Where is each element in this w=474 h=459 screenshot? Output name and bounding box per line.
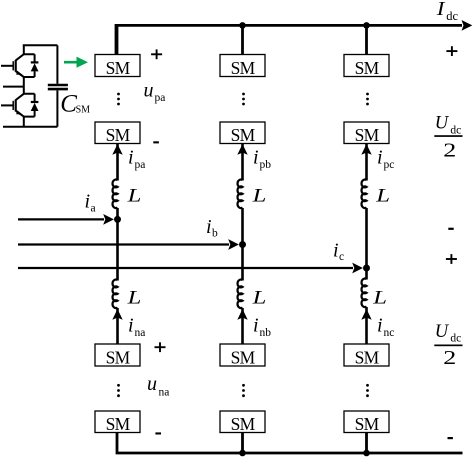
node bottom bus leg c dot: [363, 450, 370, 457]
wire leg c middle: [365, 208, 368, 280]
node phase a junction dot: [114, 216, 121, 223]
inductor L upper b: [238, 180, 243, 208]
SM box c4: [344, 411, 389, 433]
wire phase a line: [18, 218, 104, 220]
arrowhead ipb up: [237, 144, 247, 155]
SM box a4: [95, 411, 140, 433]
green arrow: [64, 57, 88, 68]
svg-text:SM: SM: [106, 348, 131, 368]
svg-text:i: i: [128, 147, 134, 169]
wire leg c lower arm: [365, 307, 368, 345]
svg-text:2: 2: [443, 139, 456, 161]
wire leg b top drop: [241, 25, 244, 56]
wire leg a top drop: [116, 25, 119, 56]
dots leg c top: [366, 93, 369, 96]
node top bus leg c dot: [363, 22, 370, 29]
wire capacitor branch lower: [56, 90, 58, 126]
gate bar Q1: [12, 61, 14, 70]
svg-text:L: L: [251, 286, 266, 308]
inductor L lower c: [362, 279, 367, 307]
svg-text:dc: dc: [450, 333, 461, 345]
wire leg c top drop: [365, 25, 368, 56]
minus sign bottom right: [448, 437, 453, 439]
gate bar Q2: [12, 101, 14, 110]
arrowhead ipa up: [112, 144, 122, 155]
emitter arrow Q1: [16, 71, 22, 75]
svg-text:SM: SM: [106, 414, 131, 434]
diode D1 cathode bar: [31, 61, 39, 63]
svg-text:L: L: [375, 184, 390, 206]
plus sign top right: [446, 46, 457, 56]
svg-text:SM: SM: [231, 414, 256, 434]
svg-text:SM: SM: [231, 58, 256, 78]
svg-text:L: L: [126, 286, 141, 308]
svg-text:SM: SM: [231, 348, 256, 368]
svg-text:SM: SM: [231, 125, 256, 145]
svg-text:SM: SM: [106, 58, 131, 78]
inductor L upper a: [113, 180, 118, 208]
wire SM bottom rail: [3, 126, 57, 128]
svg-text:u: u: [147, 373, 157, 395]
svg-text:i: i: [253, 147, 259, 169]
capacitor CSM plate 1: [48, 84, 68, 87]
plus sign upa: [151, 49, 162, 59]
wire bottom DC bus: [117, 432, 463, 453]
arrowhead ina up: [112, 309, 122, 320]
arrowhead ic right: [352, 263, 363, 274]
svg-text:na: na: [135, 327, 146, 339]
emitter lead Q1: [16, 71, 24, 77]
arrowhead Idc on top bus: [462, 20, 473, 31]
collector lead Q1: [16, 54, 24, 60]
SM box a3: [95, 344, 140, 366]
emitter lead Q2: [16, 111, 24, 117]
wire diode D2 branch: [34, 94, 36, 117]
wire Q1 collector to diode: [24, 45, 35, 54]
svg-text:L: L: [372, 286, 387, 308]
wire leg c upper arm: [365, 144, 368, 181]
svg-text:pa: pa: [135, 159, 146, 171]
arrowhead inb up: [237, 309, 247, 320]
node phase b junction dot: [239, 241, 246, 248]
wire phase b line: [18, 243, 229, 245]
wire leg a upper arm: [116, 144, 119, 181]
svg-text:i: i: [128, 315, 134, 337]
svg-text:SM: SM: [355, 414, 380, 434]
inductor L lower b: [238, 280, 243, 309]
svg-text:SM: SM: [106, 125, 131, 145]
svg-text:SM: SM: [76, 104, 91, 115]
arrowhead inc up: [361, 309, 371, 320]
body bar Q1: [15, 60, 17, 72]
svg-text:pc: pc: [384, 159, 395, 171]
svg-text:na: na: [159, 387, 170, 399]
wire Q2 collector to diode: [24, 87, 35, 94]
wire top DC bus: [116, 25, 462, 56]
inductor L lower a: [113, 280, 118, 309]
body bar Q2: [15, 100, 17, 112]
svg-text:SM: SM: [355, 58, 380, 78]
wire leg b upper arm: [241, 144, 244, 181]
SM box b4: [220, 411, 265, 433]
SM box b1: [220, 55, 265, 77]
svg-text:SM: SM: [355, 125, 380, 145]
wire leg b middle: [241, 208, 244, 281]
arrowhead ib right: [228, 239, 239, 250]
svg-text:i: i: [333, 240, 339, 262]
svg-text:i: i: [85, 191, 91, 213]
node bottom bus leg b dot: [239, 450, 246, 457]
wire gate lead Q1: [1, 65, 13, 67]
wire leg b lower arm: [241, 308, 244, 345]
svg-text:dc: dc: [446, 9, 458, 23]
SM box a2: [95, 122, 140, 144]
wire phase c line: [18, 267, 353, 269]
svg-text:nb: nb: [260, 327, 272, 339]
diode D2 cathode bar: [31, 101, 39, 103]
wire gate lead Q2: [1, 104, 13, 106]
node top bus leg b dot: [239, 22, 246, 29]
dots leg b top: [242, 93, 245, 96]
transistor Q2 lower IGBT: [1, 94, 24, 117]
svg-text:dc: dc: [450, 124, 461, 136]
svg-text:SM: SM: [355, 348, 380, 368]
svg-text:i: i: [377, 147, 383, 169]
transistor Q1 upper IGBT: [1, 54, 24, 77]
minus sign right mid: [448, 228, 453, 230]
emitter arrow Q2: [16, 110, 22, 114]
SM box c3: [344, 344, 389, 366]
svg-text:nc: nc: [384, 327, 395, 339]
svg-text:a: a: [91, 202, 96, 214]
dots leg a top: [117, 93, 120, 96]
wire leg a lower arm: [116, 308, 119, 345]
svg-text:i: i: [253, 315, 259, 337]
svg-text:i: i: [206, 216, 212, 238]
svg-text:2: 2: [443, 347, 456, 369]
plus sign una: [155, 342, 166, 352]
svg-text:pb: pb: [260, 159, 272, 171]
collector lead Q2: [16, 94, 24, 100]
wire capacitor branch upper: [56, 45, 58, 84]
SM box c1: [344, 55, 389, 77]
svg-text:U: U: [435, 322, 450, 342]
dots leg b bottom: [242, 384, 245, 387]
wire Q2 emitter to bottom rail: [24, 117, 35, 127]
arrowhead ia right: [103, 214, 114, 225]
SM box c2: [344, 122, 389, 144]
svg-text:L: L: [251, 184, 266, 206]
node phase c junction dot: [363, 265, 370, 272]
svg-text:L: L: [126, 184, 141, 206]
svg-text:U: U: [435, 113, 450, 133]
svg-text:b: b: [212, 228, 218, 240]
inductor L upper c: [362, 180, 367, 208]
diode D1 triangle: [31, 63, 39, 71]
svg-text:c: c: [339, 251, 344, 263]
wire SM top rail: [23, 44, 58, 46]
plus sign right mid: [446, 254, 457, 264]
SM box b3: [220, 344, 265, 366]
arrowhead ipc up: [361, 144, 371, 155]
svg-text:i: i: [377, 315, 383, 337]
svg-text:u: u: [144, 80, 154, 102]
capacitor CSM plate 2: [48, 88, 68, 91]
wire diode D1 branch: [34, 54, 36, 77]
wire SM midpoint terminal: [3, 86, 24, 88]
dots leg c bottom: [366, 384, 369, 387]
minus sign una: [155, 432, 161, 434]
wire Q1 emitter to midpoint: [24, 77, 35, 87]
wire leg b bottom drop: [241, 433, 244, 454]
SM box b2: [220, 122, 265, 144]
wire leg a middle: [116, 208, 119, 281]
diode D2 triangle: [31, 103, 39, 111]
dots leg a bottom: [117, 384, 120, 387]
SM box a1: [95, 55, 140, 77]
svg-text:pa: pa: [155, 92, 166, 104]
wire leg c bottom drop: [365, 433, 368, 454]
minus sign upa: [153, 141, 159, 143]
